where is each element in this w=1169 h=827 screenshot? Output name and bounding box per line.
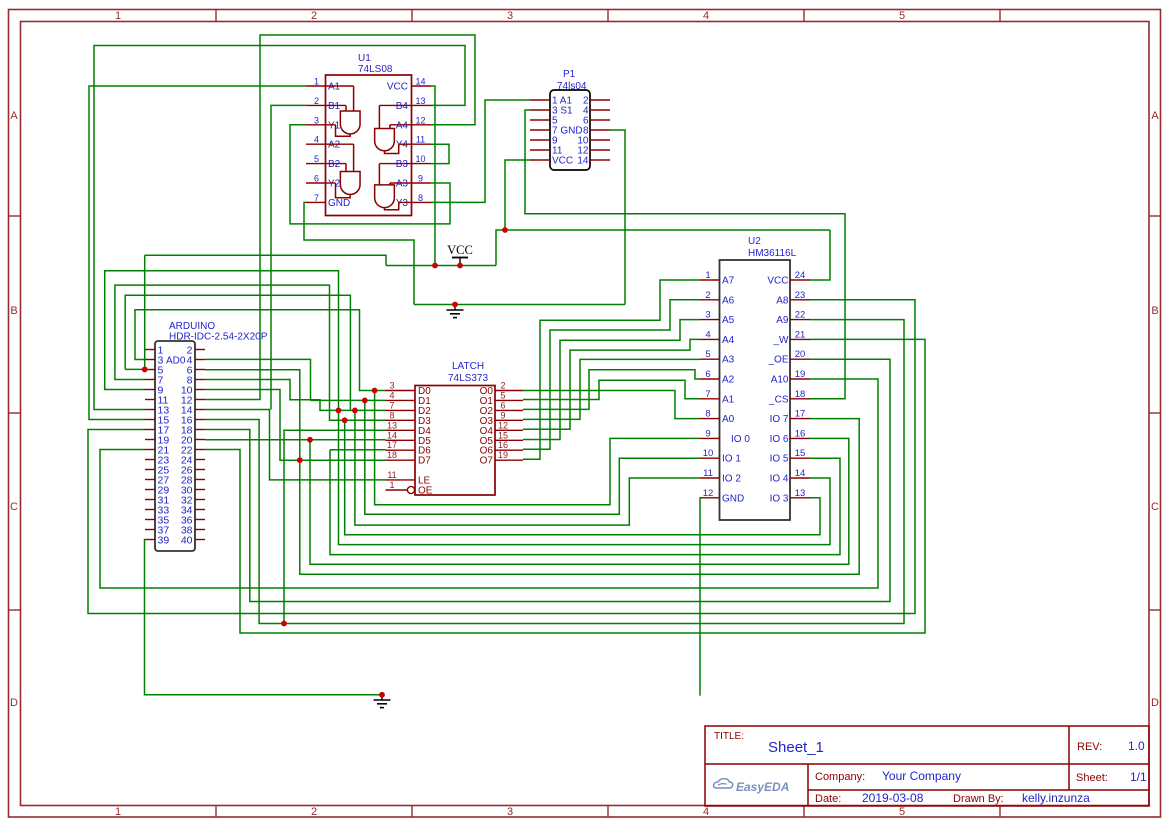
svg-text:A3: A3	[722, 355, 735, 366]
svg-text:B2: B2	[328, 159, 341, 170]
svg-text:2019-03-08: 2019-03-08	[862, 791, 924, 805]
U2 pin 5 stub	[700, 358, 720, 360]
svg-text:21: 21	[795, 329, 806, 340]
U1 pin 7 stub	[306, 201, 326, 203]
P1 right pin row 7 stub	[590, 159, 610, 161]
ruler tick right A	[1149, 215, 1161, 217]
title block	[705, 726, 1149, 806]
ARDUINO pin 33 stub	[145, 509, 155, 511]
ARDUINO pin 15 stub	[145, 419, 155, 421]
U1 gate3 input lead A4	[389, 125, 391, 129]
wire LATCH O0 to U2 A0	[523, 391, 700, 419]
junction GND rail	[452, 302, 458, 308]
LATCH pin O2 stub	[495, 409, 523, 411]
ruler tick left A	[9, 215, 21, 217]
wire U1 A4 chain to ARDUINO pin12	[205, 35, 475, 400]
LATCH pin D0 stub	[386, 390, 416, 392]
U2 pin 6 stub	[700, 378, 720, 380]
ARDUINO pin 4 stub	[195, 359, 205, 361]
U2 body	[720, 260, 791, 520]
ruler tick top 2	[411, 10, 413, 22]
wire ARDUINO pin13 to U1 B4	[94, 46, 465, 410]
svg-text:13: 13	[387, 420, 397, 430]
svg-text:A6: A6	[722, 295, 735, 306]
wire AD2 to U2 IO2	[355, 410, 700, 525]
svg-text:GND: GND	[328, 198, 350, 209]
svg-text:18: 18	[387, 450, 397, 460]
wire LATCH O5 to U2 A5	[523, 320, 700, 440]
wire LATCH D4 riser from A9 loop	[284, 430, 386, 623]
ARDUINO pin 30 stub	[195, 489, 205, 491]
U1 pin 10 stub	[412, 163, 432, 165]
wire P1 VCC pin13 drop	[505, 160, 530, 230]
wire ARDUINO pin5 chain stub	[125, 295, 350, 410]
svg-text:7: 7	[705, 389, 710, 400]
U2 pin 9 stub	[700, 437, 720, 439]
ARDUINO pin 1 stub	[145, 349, 155, 351]
svg-text:Company:: Company:	[815, 771, 865, 783]
U1 gate2 input lead B2	[345, 164, 347, 172]
P1 right pin row 5 stub	[590, 139, 610, 141]
svg-text:VCC: VCC	[447, 243, 473, 257]
svg-text:O7: O7	[480, 456, 494, 467]
U2 pin 8 stub	[700, 418, 720, 420]
svg-text:12: 12	[703, 488, 714, 499]
U1 gate4 input lead A3	[389, 183, 391, 185]
ARDUINO pin 36 stub	[195, 519, 205, 521]
U2 pin 10 stub	[700, 457, 720, 459]
wire LATCH O2 to U2 A2	[523, 370, 700, 410]
ARDUINO pin 5 stub	[145, 369, 155, 371]
wire ARDUINO pin39 to bottom ground	[145, 540, 383, 695]
LATCH pin O1 stub	[495, 399, 523, 401]
ARDUINO pin 12 stub	[195, 399, 205, 401]
svg-text:19: 19	[498, 450, 508, 460]
svg-text:74LS373: 74LS373	[448, 373, 488, 384]
junction D3 / AD3	[342, 417, 348, 423]
U2 pin 24 stub	[790, 279, 810, 281]
U1 pin 11 stub	[412, 143, 432, 145]
wire ARDUINO pin22 to U2 _W loop	[205, 339, 925, 633]
junction D0 / AD0	[372, 388, 378, 394]
svg-text:A7: A7	[722, 276, 735, 287]
svg-text:2: 2	[311, 806, 317, 818]
wire P1 pin3 to U2 _CS	[525, 110, 845, 399]
svg-text:A: A	[1151, 110, 1159, 122]
wire AD0 to U2 IO0	[375, 391, 700, 505]
svg-text:9: 9	[500, 410, 505, 420]
EasyEDA logo	[714, 779, 733, 788]
svg-text:4: 4	[389, 390, 394, 400]
U2 pin 1 stub	[700, 279, 720, 281]
svg-text:1: 1	[115, 10, 121, 22]
LATCH pin D3 stub	[386, 419, 416, 421]
svg-text:11: 11	[387, 470, 396, 480]
svg-text:P1: P1	[563, 69, 576, 80]
svg-text:5: 5	[314, 154, 319, 164]
P1 right pin row 6 stub	[590, 149, 610, 151]
junction VCC rail / U1 pin14	[432, 263, 438, 269]
svg-text:24: 24	[795, 270, 806, 281]
svg-text:8: 8	[389, 410, 394, 420]
LATCH pin LE stub	[386, 479, 416, 481]
ruler tick bottom 4	[803, 806, 805, 818]
U2 pin 4 stub	[700, 338, 720, 340]
svg-text:D7: D7	[418, 456, 431, 467]
svg-text:6: 6	[500, 400, 505, 410]
U1 pin 13 stub	[412, 104, 432, 106]
U1 pin 6 stub	[306, 182, 326, 184]
wire ARDUINO pin20 to LATCH D5	[205, 439, 386, 441]
title block divider h1	[705, 763, 1149, 765]
U1 pin 5 stub	[306, 163, 326, 165]
svg-text:A3: A3	[396, 179, 409, 190]
svg-text:15: 15	[498, 430, 508, 440]
svg-text:17: 17	[387, 440, 397, 450]
svg-text:14: 14	[387, 430, 397, 440]
svg-text:U1: U1	[358, 53, 371, 64]
svg-text:4: 4	[703, 806, 709, 818]
svg-text:74LS08: 74LS08	[358, 64, 393, 75]
svg-text:4: 4	[703, 10, 709, 22]
P1 left pin row 4 stub	[530, 129, 550, 131]
ARDUINO pin 34 stub	[195, 509, 205, 511]
ground symbol bottom left	[381, 695, 383, 700]
LATCH pin O3 stub	[495, 419, 523, 421]
svg-text:A0: A0	[722, 414, 735, 425]
svg-text:2: 2	[314, 96, 319, 106]
svg-text:Y2: Y2	[328, 179, 341, 190]
P1 right pin row 4 stub	[590, 129, 610, 131]
svg-text:IO 4: IO 4	[770, 474, 789, 485]
ARDUINO pin 11 stub	[145, 399, 155, 401]
P1 left pin row 3 stub	[530, 119, 550, 121]
ARDUINO pin 6 stub	[195, 369, 205, 371]
junction VCC / P1 pin13	[502, 227, 508, 233]
wire LATCH O3 to U2 A3	[523, 359, 700, 419]
junction D5 / AD5	[307, 437, 313, 443]
U1 pin 12 stub	[412, 124, 432, 126]
svg-text:IO 2: IO 2	[722, 474, 741, 485]
U1 gate2 input lead A2	[353, 144, 355, 171]
svg-text:6: 6	[705, 369, 710, 380]
svg-text:13: 13	[415, 96, 425, 106]
svg-text:A1: A1	[328, 82, 341, 93]
ARDUINO pin 28 stub	[195, 479, 205, 481]
svg-text:IO 6: IO 6	[770, 434, 789, 445]
svg-text:D: D	[1151, 697, 1159, 709]
svg-text:REV:: REV:	[1077, 741, 1102, 753]
ARDUINO pin 35 stub	[145, 519, 155, 521]
LATCH pin D4 stub	[386, 429, 416, 431]
svg-text:Your Company: Your Company	[882, 769, 961, 783]
svg-text:IO 3: IO 3	[770, 493, 789, 504]
svg-text:1.0: 1.0	[1128, 739, 1145, 753]
svg-text:19: 19	[795, 369, 806, 380]
svg-text:kelly.inzunza: kelly.inzunza	[1022, 791, 1090, 805]
svg-text:6: 6	[314, 174, 319, 184]
ARDUINO pin 17 stub	[145, 429, 155, 431]
svg-text:B4: B4	[396, 101, 409, 112]
P1 right pin row 1 stub	[590, 99, 610, 101]
wire U1 pin14 VCC to rail	[431, 86, 435, 266]
wire ARDUINO pin15 to U1 A1	[89, 86, 306, 420]
wire GND rail to P1 pin8	[610, 130, 625, 305]
U1 AND gate 1	[340, 111, 360, 134]
svg-text:18: 18	[795, 389, 806, 400]
svg-text:IO 0: IO 0	[731, 434, 750, 445]
U1 pin 4 stub	[306, 143, 326, 145]
junction D2 / AD2	[352, 408, 358, 414]
P1 right pin row 2 stub	[590, 109, 610, 111]
svg-text:GND: GND	[722, 493, 744, 504]
svg-text:20: 20	[795, 349, 806, 360]
wire ARDUINO pin4 to LATCH D1 riser	[205, 359, 311, 400]
ruler tick bottom 2	[411, 806, 413, 818]
U1 gate2 output lead Y2	[336, 183, 351, 198]
ruler tick left B	[9, 412, 21, 414]
svg-text:Date:: Date:	[815, 793, 841, 805]
U2 pin 11 stub	[700, 477, 720, 479]
U1 gate3 input lead B4	[378, 105, 380, 128]
svg-text:39: 39	[158, 535, 170, 547]
svg-text:Y1: Y1	[328, 120, 341, 131]
VCC stem	[459, 258, 461, 266]
svg-text:Drawn By:: Drawn By:	[953, 793, 1004, 805]
ARDUINO pin 31 stub	[145, 499, 155, 501]
svg-text:5: 5	[705, 349, 710, 360]
svg-text:3: 3	[389, 381, 394, 391]
wire VCC rail to left channel	[145, 255, 386, 265]
ARDUINO pin 18 stub	[195, 429, 205, 431]
wire ARDUINO pin21 to U2 A10 loop	[100, 379, 878, 588]
svg-text:17: 17	[795, 409, 806, 420]
U1 gate4 input lead B3	[378, 164, 380, 185]
svg-text:AD0: AD0	[166, 355, 186, 366]
ARDUINO pin 26 stub	[195, 469, 205, 471]
wire VCC rail up and right to U2	[496, 230, 830, 266]
ARDUINO body	[155, 341, 195, 551]
svg-text:5: 5	[899, 806, 905, 818]
ruler tick right B	[1149, 412, 1161, 414]
svg-text:3: 3	[705, 310, 710, 321]
svg-text:VCC: VCC	[552, 155, 573, 166]
svg-text:1/1: 1/1	[1130, 770, 1147, 784]
U1 body	[326, 75, 412, 216]
svg-text:C: C	[10, 501, 18, 513]
wire ARDUINO pin10 to LATCH D7	[205, 390, 386, 461]
svg-text:Y3: Y3	[396, 198, 409, 209]
ARDUINO pin 29 stub	[145, 489, 155, 491]
wire ARDUINO pin14 to LATCH LE	[205, 410, 386, 480]
svg-text:B3: B3	[396, 159, 409, 170]
ARDUINO pin 32 stub	[195, 499, 205, 501]
ARDUINO pin 22 stub	[195, 449, 205, 451]
P1 left pin row 7 stub	[530, 159, 550, 161]
svg-text:A4: A4	[396, 120, 409, 131]
svg-text:7: 7	[314, 193, 319, 203]
wire VCC rail	[386, 265, 496, 267]
svg-text:Sheet_1: Sheet_1	[768, 739, 824, 756]
svg-text:HM36116L: HM36116L	[748, 248, 797, 259]
wire AD5 to U2 IO6	[310, 438, 849, 564]
P1 left pin row 1 stub	[530, 99, 550, 101]
LATCH pin O4 stub	[495, 429, 523, 431]
junction D7 / AD7	[297, 457, 303, 463]
svg-text:22: 22	[795, 310, 806, 321]
ARDUINO pin 39 stub	[145, 539, 155, 541]
ARDUINO pin 8 stub	[195, 379, 205, 381]
ruler tick top 1	[215, 10, 217, 22]
ARDUINO pin 40 stub	[195, 539, 205, 541]
svg-text:A2: A2	[722, 375, 735, 386]
svg-text:11: 11	[416, 135, 425, 145]
ARDUINO pin 38 stub	[195, 529, 205, 531]
ruler tick top 5	[999, 10, 1001, 22]
svg-text:EasyEDA: EasyEDA	[736, 780, 789, 794]
U1 pin 1 stub	[306, 85, 326, 87]
U2 pin 18 stub	[790, 398, 810, 400]
VCC bar	[452, 257, 468, 259]
LATCH pin O6 stub	[495, 449, 523, 451]
svg-text:TITLE:: TITLE:	[714, 731, 744, 742]
U1 pin 2 stub	[306, 104, 326, 106]
U2 pin 13 stub	[790, 497, 810, 499]
ARDUINO pin 13 stub	[145, 409, 155, 411]
U2 pin 7 stub	[700, 398, 720, 400]
U2 pin 2 stub	[700, 299, 720, 301]
P1 left pin row 6 stub	[530, 149, 550, 151]
LATCH pin D2 stub	[386, 409, 416, 411]
wire ARDUINO pin18 to U2 _OE loop	[205, 359, 890, 601]
svg-text:3: 3	[507, 806, 513, 818]
ruler tick right C	[1149, 609, 1161, 611]
LATCH pin D6 stub	[386, 449, 416, 451]
wire AD1 to U2 IO1	[365, 400, 700, 514]
U1 AND gate 4	[375, 185, 395, 208]
wire ARDUINO pin5	[125, 368, 145, 370]
wire LATCH O4 to U2 A4	[523, 339, 700, 429]
svg-text:A10: A10	[771, 375, 789, 386]
wire ARDUINO pin17 to U2 A8 loop	[88, 300, 915, 614]
U1 gate1 output lead Y1	[336, 125, 351, 137]
wire ARDUINO pin16 to U2 A9 loop	[205, 320, 904, 624]
U1 AND gate 2	[340, 172, 360, 195]
svg-text:10: 10	[415, 154, 425, 164]
ARDUINO pin 3 stub	[145, 359, 155, 361]
ARDUINO pin 27 stub	[145, 479, 155, 481]
wire U1 pin7 GND down	[304, 202, 414, 304]
svg-text:9: 9	[705, 428, 710, 439]
svg-text:2: 2	[705, 290, 710, 301]
wire LATCH O1 to U2 A1	[523, 380, 700, 399]
LATCH pin D5 stub	[386, 439, 416, 441]
ARDUINO pin 14 stub	[195, 409, 205, 411]
svg-text:LATCH: LATCH	[452, 361, 484, 372]
ARDUINO pin 7 stub	[145, 379, 155, 381]
U2 pin 14 stub	[790, 477, 810, 479]
LATCH body	[415, 386, 495, 496]
LATCH pin D1 stub	[386, 399, 416, 401]
svg-text:12: 12	[498, 420, 508, 430]
svg-text:2: 2	[500, 381, 505, 391]
ARDUINO pin 37 stub	[145, 529, 155, 531]
svg-text:A9: A9	[776, 315, 789, 326]
ARDUINO pin 10 stub	[195, 389, 205, 391]
wire LATCH O6 to U2 A6	[523, 300, 700, 449]
svg-text:_CS: _CS	[768, 394, 789, 405]
U2 pin 17 stub	[790, 418, 810, 420]
wire U2 pin12 GND down	[699, 498, 702, 696]
svg-text:11: 11	[703, 468, 713, 479]
wire U1 Y1 to U1 A3	[290, 125, 450, 224]
U2 pin 21 stub	[790, 338, 810, 340]
LATCH pin O0 stub	[495, 390, 523, 392]
svg-text:OE: OE	[418, 486, 433, 497]
wire GND rail	[414, 304, 625, 306]
LATCH pin OE with bubble	[386, 489, 408, 491]
svg-text:40: 40	[181, 535, 193, 547]
ARDUINO pin 9 stub	[145, 389, 155, 391]
svg-text:3: 3	[314, 115, 319, 125]
title block divider h2	[808, 789, 1149, 791]
svg-text:1: 1	[705, 270, 710, 281]
svg-text:9: 9	[418, 174, 423, 184]
svg-text:Sheet:: Sheet:	[1076, 772, 1108, 784]
U1 AND gate 3	[375, 129, 395, 151]
ARDUINO pin 20 stub	[195, 439, 205, 441]
U1 pin 3 stub	[306, 124, 326, 126]
svg-text:1: 1	[389, 480, 394, 490]
svg-text:2: 2	[311, 10, 317, 22]
svg-text:14: 14	[415, 77, 425, 87]
svg-text:Y4: Y4	[396, 140, 409, 151]
U1 pin 8 stub	[412, 201, 432, 203]
svg-text:B1: B1	[328, 101, 341, 112]
wire U1 Y3 to P1 pin1	[431, 100, 530, 202]
U2 pin 19 stub	[790, 378, 810, 380]
wire LATCH D6 row	[330, 449, 386, 451]
U2 pin 12 stub	[700, 497, 720, 499]
svg-text:23: 23	[795, 290, 806, 301]
svg-text:4: 4	[705, 329, 710, 340]
svg-text:7: 7	[389, 400, 394, 410]
ARDUINO pin 24 stub	[195, 459, 205, 461]
svg-text:A1: A1	[722, 394, 735, 405]
svg-text:_W: _W	[773, 335, 790, 346]
svg-text:10: 10	[703, 448, 714, 459]
ruler tick top 4	[803, 10, 805, 22]
ARDUINO pin 19 stub	[145, 439, 155, 441]
svg-text:13: 13	[795, 488, 806, 499]
wire AD3 to U2 IO3	[345, 420, 820, 535]
svg-text:D: D	[10, 697, 18, 709]
LATCH pin D7 stub	[386, 459, 416, 461]
U1 inner pin lines	[326, 85, 354, 87]
P1 body	[550, 90, 590, 170]
wire VCC riser to ARDUINO pin5 row	[144, 255, 146, 369]
title block divider v logo	[807, 764, 809, 806]
wire AD7 to U2 IO7	[300, 419, 859, 575]
svg-text:16: 16	[498, 440, 508, 450]
svg-text:B: B	[1151, 305, 1158, 317]
U2 pin 22 stub	[790, 319, 810, 321]
P1 right pin row 3 stub	[590, 119, 610, 121]
svg-text:14: 14	[795, 468, 806, 479]
wire ARDUINO pin3 to LATCH D0	[135, 310, 386, 391]
ARDUINO pin 25 stub	[145, 469, 155, 471]
svg-text:15: 15	[795, 448, 806, 459]
